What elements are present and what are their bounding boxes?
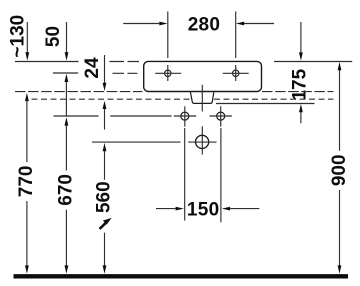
left fixing bolt circle	[181, 112, 189, 120]
dashed line 1 left part	[15, 91, 143, 93]
dimension 670 lower line	[65, 210, 67, 266]
left tap hole circle	[165, 70, 171, 76]
dimension 150 left arrow line	[156, 208, 176, 210]
dimension 50 leader line	[66, 22, 68, 53]
svg-text:~130: ~130	[8, 15, 29, 58]
dimension 900 up arrowhead	[338, 62, 342, 70]
svg-text:24: 24	[82, 57, 103, 79]
dashed line 1 right part	[262, 91, 334, 93]
left fixing bolt cross arms	[174, 106, 196, 126]
dimension 150 right arrow line	[230, 208, 259, 210]
dimension 150 right extension line	[220, 128, 222, 222]
floor line	[14, 274, 349, 278]
dashed tap centerline stub left of basin	[113, 72, 138, 74]
extension line A (rim level, right)	[274, 61, 352, 63]
siphon centerline left extension	[92, 141, 181, 143]
extension line B (drain outlet level)	[216, 103, 315, 105]
right fixing bolt cross arms	[210, 106, 232, 126]
svg-text:900: 900	[329, 154, 350, 186]
dimension 670 upper line	[65, 125, 67, 170]
dimension 24 lower tail line	[104, 109, 106, 130]
svg-text:175: 175	[289, 68, 310, 100]
siphon circle horizontal arm	[188, 141, 216, 143]
basin body outline	[144, 61, 262, 91]
dimension ~130 leader line	[26, 22, 28, 53]
left tap hole cross arms	[155, 65, 181, 81]
dimension 670 down arrowhead	[65, 265, 69, 273]
svg-text:770: 770	[16, 166, 37, 198]
dimension 280 left arrow line	[123, 23, 159, 25]
dimension 24 upper leader line	[104, 55, 106, 83]
dimension 175 lower leader line	[300, 112, 302, 123]
dashed line 2 right part	[214, 98, 334, 100]
svg-text:150: 150	[187, 199, 220, 220]
dimension 150 left extension line	[184, 128, 186, 221]
dashed countertop stub upper left of basin	[110, 61, 140, 63]
dimension 670 mid line	[65, 82, 67, 116]
dimension 560 down arrowhead	[103, 265, 107, 273]
vertical centerline through drain	[201, 85, 203, 155]
svg-text:50: 50	[43, 26, 64, 47]
dimension ~130 down arrowhead	[25, 52, 29, 60]
dimension 900 down arrowhead	[338, 265, 342, 273]
dimension 560 lower line	[104, 233, 106, 266]
svg-text:670: 670	[56, 174, 77, 206]
right tap hole circle	[233, 70, 239, 76]
right tap hole cross arms	[223, 65, 249, 81]
dimension 670 up arrowhead at tap centerline	[65, 74, 69, 82]
drain outlet trapezoid	[190, 92, 213, 103]
reference line L1 (rim level, left)	[15, 61, 79, 63]
dimension 175 up arrowhead	[299, 104, 303, 112]
adjustable height diagonal arrow	[100, 222, 107, 229]
dimension 560 up arrowhead	[103, 143, 107, 151]
dimension 175 upper leader line	[300, 22, 302, 53]
svg-text:560: 560	[94, 181, 115, 213]
dimension 280 left extension line	[167, 12, 169, 59]
dimension 770 lower line	[26, 201, 28, 266]
dimension 770 down arrowhead	[25, 265, 29, 273]
dimension 670 up arrowhead at bolt centerline	[65, 117, 69, 125]
dimension 280 right arrow line	[244, 23, 274, 25]
dimension 280 left arrowhead	[159, 22, 167, 26]
dimension 24 down arrowhead	[103, 83, 107, 91]
dimension 150 right arrowhead	[222, 207, 230, 211]
siphon circle	[196, 135, 209, 148]
dimension 24 lower up arrowhead	[103, 101, 107, 109]
dimension 175 down arrowhead	[299, 52, 303, 60]
svg-text:280: 280	[188, 14, 221, 35]
dimension 280 right extension line	[235, 12, 237, 59]
dimension 900 upper line	[339, 70, 341, 151]
right fixing bolt circle	[217, 112, 225, 120]
bolt centerline left extension	[54, 115, 172, 117]
dimension 280 right arrowhead	[236, 22, 244, 26]
dimension 900 lower line	[339, 190, 341, 266]
dimension 50 down arrowhead	[65, 52, 69, 60]
tap centerline stub left	[53, 72, 78, 74]
dashed line 2 left part	[32, 98, 191, 100]
dimension 770 upper line	[26, 101, 28, 162]
dimension 560 upper line	[104, 151, 106, 180]
dimension 150 left arrowhead	[176, 207, 184, 211]
dimension 770 up arrowhead	[25, 93, 29, 101]
